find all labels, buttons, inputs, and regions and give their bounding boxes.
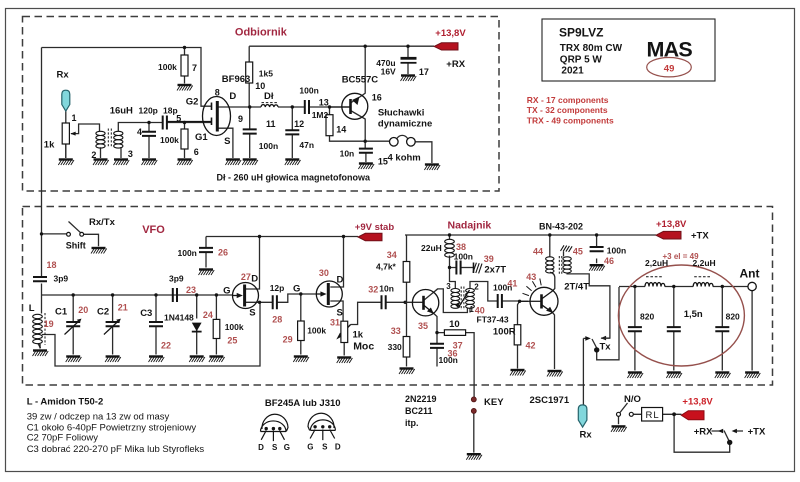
svg-text:10n: 10n xyxy=(379,284,394,294)
svg-text:100n: 100n xyxy=(454,252,473,262)
svg-text:12: 12 xyxy=(294,119,304,129)
svg-text:8: 8 xyxy=(215,88,220,98)
svg-text:+TX: +TX xyxy=(691,231,709,242)
svg-text:4 kohm: 4 kohm xyxy=(388,153,421,164)
svg-text:G1: G1 xyxy=(195,132,208,143)
svg-text:S: S xyxy=(322,443,328,452)
svg-text:Rx: Rx xyxy=(57,70,70,81)
svg-text:16uH: 16uH xyxy=(110,106,133,117)
svg-text:D: D xyxy=(337,275,344,286)
svg-text:26: 26 xyxy=(218,248,228,258)
svg-text:2x7T: 2x7T xyxy=(484,265,506,276)
svg-text:32: 32 xyxy=(368,285,378,295)
svg-text:TX - 32 components: TX - 32 components xyxy=(527,105,608,115)
svg-text:15: 15 xyxy=(378,157,388,167)
svg-text:QRP 5 W: QRP 5 W xyxy=(560,55,603,66)
svg-text:27: 27 xyxy=(241,272,251,282)
svg-text:1,5n: 1,5n xyxy=(684,309,703,320)
svg-text:BN-43-202: BN-43-202 xyxy=(539,222,583,232)
svg-text:16V: 16V xyxy=(381,67,396,77)
svg-text:44: 44 xyxy=(533,247,543,257)
svg-text:C3: C3 xyxy=(140,308,152,319)
svg-text:39 zw / odczep na 13 zw od mas: 39 zw / odczep na 13 zw od masy xyxy=(27,412,170,423)
svg-text:42: 42 xyxy=(526,341,536,351)
svg-text:29: 29 xyxy=(283,335,293,345)
svg-text:itp.: itp. xyxy=(405,418,419,428)
svg-text:6: 6 xyxy=(194,147,199,157)
svg-text:43: 43 xyxy=(526,272,536,282)
svg-text:34: 34 xyxy=(387,250,397,260)
svg-text:100k: 100k xyxy=(225,322,244,332)
svg-text:33: 33 xyxy=(391,326,401,336)
svg-text:TRX - 49 components: TRX - 49 components xyxy=(527,116,614,126)
svg-text:Tx: Tx xyxy=(600,342,612,353)
svg-text:Dł: Dł xyxy=(264,91,274,102)
svg-text:23: 23 xyxy=(186,285,196,295)
svg-text:BF245A lub J310: BF245A lub J310 xyxy=(265,398,341,409)
svg-text:C3 dobrać 220-270 pF Mika lub: C3 dobrać 220-270 pF Mika lub Styrofleks xyxy=(27,444,205,455)
svg-text:1N4148: 1N4148 xyxy=(164,313,194,323)
svg-text:21: 21 xyxy=(118,303,128,313)
svg-text:100k: 100k xyxy=(158,62,177,72)
svg-text:3p9: 3p9 xyxy=(169,274,184,284)
svg-text:+13,8V: +13,8V xyxy=(435,28,466,39)
svg-text:16: 16 xyxy=(372,93,382,103)
svg-text:D: D xyxy=(335,443,341,452)
svg-text:100n: 100n xyxy=(299,86,318,96)
svg-text:Ant: Ant xyxy=(740,267,760,281)
svg-text:3p9: 3p9 xyxy=(54,274,69,284)
svg-text:4: 4 xyxy=(137,127,142,137)
svg-text:7: 7 xyxy=(192,63,197,73)
svg-text:18: 18 xyxy=(47,260,57,270)
svg-text:Dł - 260 uH głowica magnetofon: Dł - 260 uH głowica magnetofonowa xyxy=(217,173,372,183)
svg-text:TRX 80m CW: TRX 80m CW xyxy=(560,43,623,54)
svg-text:28: 28 xyxy=(272,315,282,325)
svg-text:S: S xyxy=(272,443,278,452)
svg-text:100n: 100n xyxy=(178,248,197,258)
svg-text:19: 19 xyxy=(44,319,54,329)
svg-text:5: 5 xyxy=(176,114,181,124)
svg-text:L: L xyxy=(29,303,35,314)
svg-text:12p: 12p xyxy=(270,283,285,293)
svg-text:1: 1 xyxy=(72,113,77,123)
svg-text:Rx/Tx: Rx/Tx xyxy=(89,217,116,228)
svg-text:820: 820 xyxy=(726,312,740,322)
svg-text:31: 31 xyxy=(330,318,340,328)
svg-text:L - Amidon T50-2: L - Amidon T50-2 xyxy=(27,397,104,408)
svg-text:D: D xyxy=(251,274,258,285)
svg-text:FT37-43: FT37-43 xyxy=(477,315,509,325)
svg-text:+RX: +RX xyxy=(446,59,465,70)
svg-text:+9V stab: +9V stab xyxy=(355,222,395,233)
svg-text:100k: 100k xyxy=(160,135,179,145)
svg-text:Shift: Shift xyxy=(66,241,86,251)
svg-text:G: G xyxy=(284,443,290,452)
svg-text:47n: 47n xyxy=(299,140,314,150)
svg-text:2: 2 xyxy=(474,283,479,292)
svg-text:D: D xyxy=(258,443,264,452)
svg-text:2T/4T: 2T/4T xyxy=(564,282,589,293)
svg-text:41: 41 xyxy=(507,279,517,289)
svg-text:1k: 1k xyxy=(44,140,55,151)
svg-text:10n: 10n xyxy=(340,149,355,159)
svg-text:10: 10 xyxy=(449,319,460,330)
svg-text:G: G xyxy=(293,284,300,295)
svg-text:G2: G2 xyxy=(186,97,199,108)
svg-text:24: 24 xyxy=(203,310,213,320)
svg-text:G: G xyxy=(223,286,230,297)
svg-text:9: 9 xyxy=(238,114,243,124)
svg-text:120p: 120p xyxy=(139,106,158,116)
svg-text:C2 70pF Foliowy: C2 70pF Foliowy xyxy=(27,433,99,444)
svg-text:10: 10 xyxy=(255,81,265,91)
svg-text:VFO: VFO xyxy=(142,224,165,236)
svg-text:RL: RL xyxy=(646,410,660,421)
svg-text:2SC1971: 2SC1971 xyxy=(530,395,570,406)
svg-text:1k5: 1k5 xyxy=(259,69,273,79)
svg-text:1M2: 1M2 xyxy=(312,110,329,120)
svg-text:4,7k*: 4,7k* xyxy=(376,262,397,272)
svg-text:25: 25 xyxy=(227,336,237,346)
svg-text:1k: 1k xyxy=(353,330,364,341)
svg-text:C1: C1 xyxy=(55,307,68,318)
svg-text:SP9LVZ: SP9LVZ xyxy=(559,26,603,40)
svg-text:KEY: KEY xyxy=(484,397,504,408)
svg-text:Odbiornik: Odbiornik xyxy=(235,27,288,39)
svg-text:1: 1 xyxy=(469,305,474,314)
svg-text:17: 17 xyxy=(419,67,429,77)
svg-text:Słuchawki: Słuchawki xyxy=(378,108,424,119)
svg-text:+TX: +TX xyxy=(748,427,766,438)
svg-text:330: 330 xyxy=(388,342,402,352)
svg-text:45: 45 xyxy=(573,247,583,257)
svg-text:49: 49 xyxy=(664,64,675,75)
svg-text:46: 46 xyxy=(604,256,614,266)
svg-text:+13,8V: +13,8V xyxy=(656,219,687,230)
svg-text:39: 39 xyxy=(484,254,494,264)
svg-text:100R: 100R xyxy=(493,327,516,338)
svg-text:Moc: Moc xyxy=(353,341,374,353)
svg-text:RX - 17 components: RX - 17 components xyxy=(527,95,609,105)
svg-text:35: 35 xyxy=(418,321,428,331)
svg-text:BC211: BC211 xyxy=(405,406,433,416)
svg-text:100n: 100n xyxy=(439,355,458,365)
svg-text:BC557C: BC557C xyxy=(342,75,379,86)
svg-text:+13,8V: +13,8V xyxy=(682,397,713,408)
svg-text:2: 2 xyxy=(91,150,96,160)
svg-text:11: 11 xyxy=(266,119,276,129)
svg-text:3: 3 xyxy=(446,282,451,291)
svg-text:D: D xyxy=(229,91,236,102)
svg-text:30: 30 xyxy=(319,268,329,278)
svg-text:14: 14 xyxy=(336,125,346,135)
svg-text:S: S xyxy=(249,308,255,319)
svg-text:S: S xyxy=(224,136,230,147)
svg-text:20: 20 xyxy=(78,305,88,315)
svg-text:820: 820 xyxy=(640,312,654,322)
svg-text:22uH: 22uH xyxy=(421,243,442,253)
svg-text:Nadajnik: Nadajnik xyxy=(448,220,492,232)
svg-text:22: 22 xyxy=(161,341,171,351)
svg-text:C2: C2 xyxy=(97,307,109,318)
svg-text:dynamiczne: dynamiczne xyxy=(378,118,432,129)
svg-text:38: 38 xyxy=(456,242,466,252)
svg-text:2N2219: 2N2219 xyxy=(405,394,437,404)
svg-text:100n: 100n xyxy=(607,246,626,256)
svg-text:+3 el = 49: +3 el = 49 xyxy=(663,252,700,261)
svg-text:13: 13 xyxy=(319,98,329,108)
svg-text:Rx: Rx xyxy=(580,430,593,441)
svg-text:2021: 2021 xyxy=(561,66,584,77)
svg-text:+RX: +RX xyxy=(694,427,713,438)
svg-text:3: 3 xyxy=(128,149,133,159)
svg-text:100k: 100k xyxy=(307,326,326,336)
svg-text:G: G xyxy=(307,443,313,452)
svg-text:100n: 100n xyxy=(259,141,278,151)
svg-text:BF963: BF963 xyxy=(222,74,251,85)
